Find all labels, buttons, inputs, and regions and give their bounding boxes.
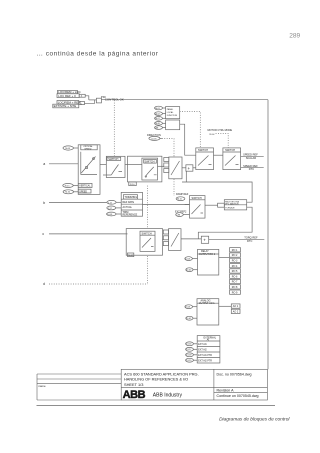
svg-text:OUTPUT AO 1: OUTPUT AO 1 — [199, 302, 215, 305]
svg-text:ACTUAL: ACTUAL — [123, 206, 133, 209]
svg-text:70.15: 70.15 — [65, 185, 71, 187]
svg-text:PANEL: PANEL — [167, 108, 174, 111]
svg-text:c: c — [42, 232, 44, 236]
svg-text:RO 3: RO 3 — [232, 260, 238, 263]
svg-text:REFERENCE: REFERENCE — [123, 213, 138, 216]
svg-text:b: b — [43, 201, 45, 205]
svg-text:14.02: 14.02 — [186, 270, 192, 272]
svg-text:RO 8: RO 8 — [232, 286, 238, 289]
svg-text:AI: AI — [207, 339, 210, 342]
svg-text:10.01: 10.01 — [107, 214, 113, 216]
svg-text:DTC: DTC — [247, 239, 252, 243]
svg-text:10.03: 10.03 — [151, 138, 157, 140]
svg-text:SWITCH: SWITCH — [108, 157, 118, 161]
svg-text:TORQUE: TORQUE — [225, 207, 235, 209]
svg-text:15.01: 15.01 — [185, 307, 191, 309]
svg-text:SPEED REF: SPEED REF — [243, 153, 258, 157]
svg-text:RO 5: RO 5 — [232, 270, 238, 273]
svg-text:RO 2: RO 2 — [232, 254, 238, 257]
svg-text:name: name — [39, 384, 46, 388]
svg-text:AO 2: AO 2 — [233, 311, 239, 314]
svg-text:EXT AI1 PTR: EXT AI1 PTR — [198, 354, 212, 357]
svg-text:FUNCTION: FUNCTION — [167, 115, 178, 117]
svg-text:ABB: ABB — [123, 389, 146, 401]
svg-text:EXT AI2 PTR: EXT AI2 PTR — [198, 360, 212, 363]
svg-text:LIM: LIM — [155, 128, 159, 130]
svg-text:+: + — [188, 166, 191, 171]
svg-text:d: d — [43, 282, 45, 286]
svg-text:SPEED: SPEED — [84, 148, 92, 150]
svg-text:TRIMMING: TRIMMING — [125, 196, 138, 199]
svg-text:ABB Industry: ABB Industry — [153, 393, 183, 399]
svg-text:EXT/SITE + SITE: EXT/SITE + SITE — [54, 104, 77, 108]
svg-text:70.08: 70.08 — [65, 148, 71, 150]
svg-text:RO 6: RO 6 — [232, 275, 238, 278]
svg-text:CONTROL OK: CONTROL OK — [105, 97, 124, 101]
svg-text:13.17: 13.17 — [186, 349, 192, 351]
svg-text:SWITCH: SWITCH — [142, 231, 152, 235]
svg-text:10.07: 10.07 — [155, 118, 160, 120]
svg-text:70.11: 70.11 — [177, 199, 183, 201]
svg-text:99.04: 99.04 — [209, 134, 215, 136]
svg-text:RO 1: RO 1 — [232, 249, 238, 252]
svg-text:Revision A: Revision A — [217, 389, 235, 393]
svg-text:PFC MACROS: PFC MACROS — [225, 202, 239, 205]
svg-text:+: + — [203, 238, 206, 243]
svg-text:HANDLING OF REFERENCES & I/O: HANDLING OF REFERENCES & I/O — [124, 376, 188, 381]
svg-text:DTC: DTC — [249, 167, 254, 171]
svg-text:Diagramas de bloques de contro: Diagramas de bloques de control — [219, 417, 290, 423]
svg-text:13.18: 13.18 — [186, 355, 192, 357]
svg-text:SPEED: SPEED — [79, 191, 87, 193]
svg-text:RO 4: RO 4 — [232, 265, 238, 268]
svg-text:SWITCH: SWITCH — [144, 159, 154, 163]
svg-text:RAMP REF: RAMP REF — [176, 193, 189, 196]
svg-text:70.16: 70.16 — [65, 192, 71, 194]
svg-text:EXT AI2: EXT AI2 — [198, 349, 207, 352]
svg-text:EXT REF2: EXT REF2 — [175, 210, 187, 213]
svg-text:LOCAL: LOCAL — [167, 111, 174, 114]
svg-text:SHEET 1/3: SHEET 1/3 — [124, 382, 143, 387]
svg-text:13.19: 13.19 — [186, 360, 192, 362]
svg-text:70.17: 70.17 — [128, 255, 134, 257]
svg-text:DIRECTION: DIRECTION — [147, 134, 161, 137]
svg-text:EXT AI1: EXT AI1 — [198, 343, 207, 346]
svg-text:Continue on 0070545.dwg: Continue on 0070545.dwg — [217, 394, 259, 398]
svg-text:SWITCH: SWITCH — [225, 148, 235, 152]
svg-text:14.01: 14.01 — [185, 258, 191, 260]
svg-text:… continúa desde la página ant: … continúa desde la página anterior — [37, 51, 159, 58]
svg-text:MOTOR CTRL MODE: MOTOR CTRL MODE — [208, 129, 233, 132]
svg-text:70.10: 70.10 — [130, 184, 136, 186]
svg-text:10.02: 10.02 — [155, 114, 160, 116]
svg-text:SWITCH: SWITCH — [198, 148, 208, 152]
svg-text:REF RATE: REF RATE — [123, 201, 135, 204]
svg-text:289: 289 — [289, 32, 300, 39]
svg-text:RO 7: RO 7 — [232, 281, 238, 284]
svg-text:OUTPUT RO 1: OUTPUT RO 1 — [199, 253, 216, 256]
svg-text:13.16: 13.16 — [186, 344, 192, 346]
svg-text:10.01: 10.01 — [155, 108, 160, 110]
svg-text:RO 9: RO 9 — [232, 291, 238, 294]
svg-text:VERTICAL: VERTICAL — [79, 185, 91, 188]
svg-text:a: a — [43, 162, 45, 166]
svg-text:SCALAR: SCALAR — [246, 156, 257, 160]
svg-text:LOC REF + 0: LOC REF + 0 — [58, 94, 76, 98]
svg-text:SWITCH: SWITCH — [192, 196, 202, 200]
svg-text:10.08: 10.08 — [155, 123, 160, 125]
svg-text:15.02: 15.02 — [186, 318, 192, 320]
svg-text:Doc. no 0070564.dwg: Doc. no 0070564.dwg — [217, 372, 252, 376]
svg-text:AO 1: AO 1 — [233, 305, 239, 308]
svg-text:EXTERNAL: EXTERNAL — [204, 336, 217, 339]
svg-text:LIM: LIM — [177, 214, 181, 216]
